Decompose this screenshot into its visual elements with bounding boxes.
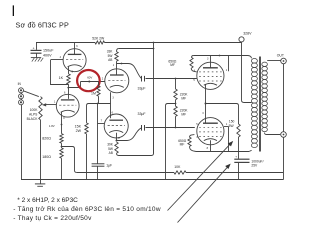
wire P2 cathode lead <box>207 140 211 151</box>
svg-text:MF: MF <box>181 97 186 101</box>
triode V2 (6H1P b) <box>56 94 79 117</box>
svg-text:33μF: 33μF <box>138 87 146 91</box>
transformer core <box>260 57 261 152</box>
wire V2 grid from pot <box>45 101 57 105</box>
wire P1 plate lead <box>207 56 211 68</box>
svg-text:400V: 400V <box>43 53 52 57</box>
pentode P1 (6P3C upper) <box>197 62 224 89</box>
annotation arrow to 1000uF <box>178 164 231 223</box>
svg-text:AB: AB <box>108 58 112 62</box>
wire NFB line right <box>186 172 283 174</box>
node 1.8V cathode <box>49 124 62 128</box>
wire 1uF line <box>97 104 99 164</box>
resistor 39K 5W AB <box>107 142 118 155</box>
svg-text:33μF: 33μF <box>138 112 146 116</box>
wire P1 pin labels <box>193 69 227 82</box>
node 60V <box>87 75 92 82</box>
svg-text:OUT: OUT <box>277 53 284 57</box>
capacitor 33uF lower <box>138 112 146 131</box>
wire node jog <box>69 82 81 88</box>
wire 1K bottom to V2 plate <box>68 84 70 99</box>
wire secondary bottom <box>265 133 281 135</box>
wire V4 plate lead <box>111 104 114 119</box>
svg-text:MF: MF <box>181 113 186 117</box>
capacitor 150uF 400V <box>31 43 55 58</box>
terminal 328V <box>239 31 252 42</box>
ground symbol <box>35 179 45 186</box>
svg-text:- Thay tụ Ck = 220uf/50v: - Thay tụ Ck = 220uf/50v <box>13 215 92 222</box>
svg-text:25V: 25V <box>251 164 258 168</box>
wire cathodyne out <box>117 128 142 141</box>
wire lower grid line <box>146 127 195 129</box>
resistor 1M <box>91 82 100 104</box>
wire V1 plate to rail <box>75 43 79 55</box>
wire upper grid line <box>146 78 197 80</box>
svg-text:328V: 328V <box>243 31 252 35</box>
ground chassis (150uF) <box>31 58 43 62</box>
wire 33K feed line <box>119 48 155 50</box>
svg-text:AB: AB <box>109 151 113 155</box>
potentiometer 100K ALPS <box>27 97 43 121</box>
node rail-153 <box>153 42 155 44</box>
svg-text:+: + <box>33 46 35 50</box>
note line 3 <box>13 215 92 222</box>
svg-text:52K 2W: 52K 2W <box>92 37 105 41</box>
wire NFB branch <box>62 147 77 173</box>
wire P2 pin labels <box>196 123 228 139</box>
resistor 820R <box>42 124 63 143</box>
triode V4 (6H1P) <box>104 114 128 138</box>
svg-text:39K: 39K <box>107 142 114 146</box>
pentode P2 (6P3C lower) <box>197 118 224 145</box>
resistor 10K NFB <box>174 165 186 174</box>
svg-text:180Ω: 180Ω <box>42 155 51 159</box>
wire plate node to coupling cap <box>117 63 142 79</box>
note line 1 <box>17 197 78 204</box>
svg-text:* 2 x 6H1P, 2 x 6P3C: * 2 x 6H1P, 2 x 6P3C <box>17 197 78 204</box>
wire pot bottom <box>40 120 42 179</box>
wire cathode/plate bus <box>89 103 111 105</box>
capacitor 1000uF 25V <box>234 155 263 180</box>
wire V3 plate lead <box>113 64 117 75</box>
svg-text:10K: 10K <box>174 165 181 169</box>
node 220K mid <box>175 100 177 107</box>
red highlight circle <box>77 70 100 91</box>
svg-text:150uF: 150uF <box>43 49 54 53</box>
resistor 52K 2W <box>92 37 105 44</box>
wire 39K return loop <box>117 128 154 156</box>
resistor 650R lower <box>178 135 196 152</box>
wire B+ to center tap <box>242 42 252 103</box>
transformer secondary winding <box>262 62 268 132</box>
terminal OUT- <box>281 132 287 138</box>
svg-text:- Tăng trở Rk của đèn 6P3C lên: - Tăng trở Rk của đèn 6P3C lên = 510 om/… <box>13 205 161 213</box>
triode V1 (6H1P a) <box>63 49 86 72</box>
wire V1 grid return down <box>51 60 69 85</box>
svg-text:MF: MF <box>180 143 185 147</box>
svg-text:60V: 60V <box>87 75 92 79</box>
resistor 220K upper <box>174 79 189 101</box>
wire V4 cathode lead <box>116 133 121 142</box>
svg-text:15K: 15K <box>75 125 82 129</box>
resistor 220K lower <box>174 106 189 127</box>
svg-text:Sơ đồ 6П3С PP: Sơ đồ 6П3С PP <box>16 20 69 29</box>
node NFB junction <box>61 143 63 148</box>
wire P2 plate lead <box>202 104 205 124</box>
resistor 15K 2W <box>75 123 89 134</box>
wire V2 cathode lead <box>62 112 66 125</box>
pot wiper arrow <box>42 103 46 106</box>
svg-text:1.8V: 1.8V <box>49 124 55 128</box>
wire input ground line <box>21 88 23 179</box>
capacitor 1uF <box>92 164 113 180</box>
wire 220K mid to ground <box>166 104 176 180</box>
svg-text:5W: 5W <box>229 124 235 128</box>
svg-text:1μF: 1μF <box>106 164 112 168</box>
wire 33K bottom to plate node <box>116 61 118 63</box>
svg-text:MF: MF <box>170 63 175 67</box>
wire plate line A <box>193 55 251 59</box>
terminal OUT+ <box>277 53 287 63</box>
triode V3 (6H1P) <box>105 69 129 93</box>
resistor Rk 150 5W <box>229 120 241 137</box>
resistor 650R upper <box>168 56 196 72</box>
node V1/V2 junction <box>67 87 69 89</box>
wire NFB line left <box>77 172 174 174</box>
wire V1 cathode lead <box>69 67 74 74</box>
wire OUT down <box>283 64 285 180</box>
wire P1 cathode lead <box>205 84 207 104</box>
wire P2 plate to primary <box>196 127 252 152</box>
capacitor 33uF upper <box>138 76 146 91</box>
resistor 180R <box>42 148 63 179</box>
transformer primary winding <box>251 59 257 148</box>
wire V4 grid stub <box>98 120 105 124</box>
wire P1 screen drop <box>228 56 230 72</box>
svg-text:820Ω: 820Ω <box>42 137 51 141</box>
annotation arrow to Rk <box>168 141 234 211</box>
note line 2 <box>13 205 161 213</box>
wire cathode bus <box>206 104 239 125</box>
svg-text:BLACK: BLACK <box>27 117 39 121</box>
wire 15K top corner <box>87 104 89 123</box>
svg-text:100K: 100K <box>30 108 39 112</box>
wire bottom ground rail <box>21 179 284 181</box>
resistor 1K <box>59 74 71 84</box>
wire node to V3 grid <box>81 77 105 81</box>
wire V1 grid left <box>51 56 63 60</box>
wire 15K bottom <box>86 134 88 179</box>
wire secondary top to OUT <box>267 60 281 62</box>
title text <box>16 20 69 29</box>
text cursor bar <box>13 5 14 16</box>
svg-text:5W: 5W <box>108 147 113 151</box>
wire V2 plate pin6 <box>64 91 66 94</box>
wire rail drop x153 <box>153 43 155 154</box>
svg-text:1M: 1M <box>91 91 96 95</box>
svg-text:+: + <box>235 155 237 159</box>
resistor 33K 5W AB <box>107 49 119 63</box>
wire jack to pot <box>23 91 39 97</box>
wire top B+ rail left segment <box>36 42 95 44</box>
svg-text:ALPS: ALPS <box>29 113 38 117</box>
svg-text:1K: 1K <box>59 76 64 80</box>
wire top B+ rail right segment <box>105 42 242 44</box>
svg-text:2W: 2W <box>76 129 82 133</box>
input jack IN <box>18 82 24 105</box>
wire V3 cathode lead <box>111 92 115 103</box>
wire Rk to cap <box>238 137 240 159</box>
